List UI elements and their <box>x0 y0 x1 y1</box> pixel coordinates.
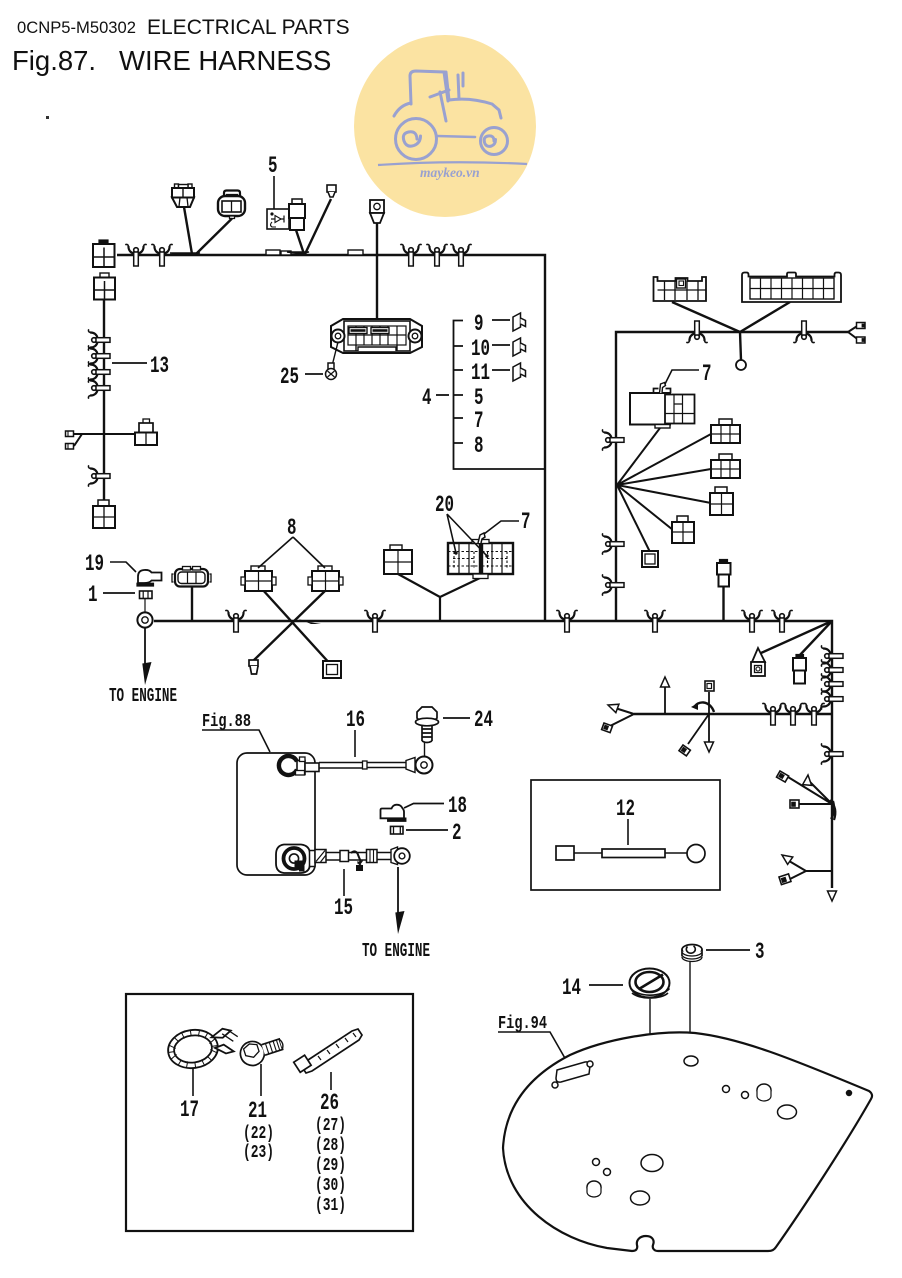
svg-text:0CNP5-M50302: 0CNP5-M50302 <box>17 18 136 37</box>
svg-text:21: 21 <box>248 1098 267 1124</box>
wire clip <box>88 329 110 350</box>
wire mid-right line <box>634 713 832 715</box>
wire clip <box>602 574 624 595</box>
connector fan <box>711 454 740 478</box>
label 5 <box>268 153 278 212</box>
label 16 <box>346 707 365 757</box>
svg-text:19: 19 <box>85 551 104 577</box>
bulb terminal <box>327 185 336 197</box>
wire clip <box>602 429 624 450</box>
terminal (above junction) <box>705 681 714 691</box>
label 7 <box>665 361 712 387</box>
svg-text:TO ENGINE: TO ENGINE <box>362 940 430 962</box>
svg-text:Fig.94: Fig.94 <box>498 1014 547 1034</box>
wire clip <box>762 703 783 725</box>
hose clamp 17 <box>166 1024 242 1072</box>
connector (mid left) <box>135 419 157 445</box>
wire bolt to ring <box>424 742 426 757</box>
wire fan-out <box>617 428 711 552</box>
terminal <box>602 723 613 733</box>
connector (X bottom right) <box>323 661 341 678</box>
svg-text:maykeo.vn: maykeo.vn <box>420 165 480 180</box>
bolt 24 <box>416 707 439 743</box>
svg-text:(31): (31) <box>315 1196 346 1216</box>
connector (top right 2) <box>742 273 841 303</box>
wire clip <box>793 321 814 343</box>
terminal <box>777 771 789 782</box>
wire to bulb <box>305 199 331 254</box>
label 12 <box>616 796 635 845</box>
label 24 <box>443 707 493 733</box>
svg-text:9: 9 <box>474 311 484 337</box>
connector (oval top) <box>218 191 245 219</box>
wire clip <box>821 688 843 709</box>
terminal (diag end) <box>679 745 690 756</box>
Fig.88 label <box>202 712 270 752</box>
wire clip <box>644 610 665 632</box>
svg-text:24: 24 <box>474 707 493 733</box>
svg-text:3: 3 <box>755 939 765 965</box>
wire clip <box>771 610 792 632</box>
wire clip <box>88 465 110 486</box>
wire <box>196 219 232 255</box>
label 15 <box>334 869 353 921</box>
wire <box>184 207 192 254</box>
wire clip <box>88 377 110 398</box>
relay 7 <box>630 383 695 429</box>
arrow up branch <box>664 682 666 714</box>
TO ENGINE arrow 2 <box>397 867 399 913</box>
pentagon connector (right) <box>751 648 765 676</box>
svg-text:4: 4 <box>422 385 432 411</box>
svg-text:12: 12 <box>616 796 635 822</box>
terminal <box>66 444 74 450</box>
wire fork 871 <box>784 858 832 881</box>
connector (X top) <box>308 566 343 591</box>
bracket list 4 <box>436 320 545 469</box>
tape markers on bus <box>170 250 363 255</box>
svg-text:25: 25 <box>280 364 299 390</box>
wire junction 709 <box>688 692 709 744</box>
wire clip <box>450 244 471 266</box>
svg-text:(27): (27) <box>315 1116 346 1136</box>
connector (X top) <box>241 566 276 591</box>
ring terminal <box>137 612 152 627</box>
terminal <box>779 874 791 885</box>
wire clip <box>821 743 843 764</box>
wire clip <box>602 533 624 554</box>
wire clip <box>88 345 110 366</box>
wire <box>191 587 193 620</box>
wire clip <box>125 244 146 266</box>
wire 3 to panel <box>689 962 691 1056</box>
svg-text:(30): (30) <box>315 1176 346 1196</box>
wire clip <box>741 610 762 632</box>
arrow bottom <box>828 891 837 901</box>
svg-text:16: 16 <box>346 707 365 733</box>
terminal (X bottom left) <box>249 660 258 674</box>
svg-text:(29): (29) <box>315 1156 346 1176</box>
svg-text:TO ENGINE: TO ENGINE <box>109 685 177 707</box>
bolt 21 <box>237 1032 286 1068</box>
watermark logo <box>354 35 536 217</box>
box item 12 <box>531 780 720 890</box>
terminal <box>857 323 866 329</box>
wire middle bus <box>154 621 832 888</box>
cable 15 <box>276 845 410 874</box>
grommet 3 <box>682 945 702 962</box>
arrow down <box>705 742 714 752</box>
wire clip <box>821 645 843 666</box>
clamp 2 <box>391 826 404 834</box>
relay small (x723) <box>717 560 731 587</box>
wire clip <box>782 703 803 725</box>
svg-text:Fig.87. WIRE HARNESS: Fig.87. WIRE HARNESS <box>12 45 331 76</box>
connector fan E <box>642 551 658 567</box>
label 20 <box>435 492 487 556</box>
wire clip <box>686 321 707 343</box>
Fig.88 box <box>237 753 315 875</box>
fuse 10 <box>513 338 526 356</box>
label 26 <box>315 1072 346 1216</box>
cable tie 26 <box>294 1029 362 1073</box>
wire clip <box>151 244 172 266</box>
wire to fuse box <box>376 223 378 321</box>
wire clip <box>556 610 577 632</box>
svg-text:15: 15 <box>334 895 353 921</box>
terminal <box>857 337 866 343</box>
fuse box <box>331 319 422 353</box>
wire clip <box>225 610 246 632</box>
relay item 5 <box>289 199 305 230</box>
label 3 <box>706 939 765 965</box>
connector (trapezoid top) <box>172 184 194 207</box>
connector fan D <box>672 516 694 543</box>
item 1 clamp <box>140 591 153 613</box>
svg-text:Fig.88: Fig.88 <box>202 712 251 732</box>
label 8 <box>258 515 325 568</box>
svg-text:18: 18 <box>448 793 467 819</box>
wire clip <box>821 659 843 680</box>
screw item 25 <box>326 342 339 380</box>
svg-text:26: 26 <box>320 1090 339 1116</box>
svg-text:7: 7 <box>474 408 484 434</box>
floor panel Fig.94 <box>503 1032 872 1251</box>
svg-text:2: 2 <box>452 820 462 846</box>
svg-text:17: 17 <box>180 1097 199 1123</box>
connector (left of 20 pair) <box>384 545 412 574</box>
label 13 <box>112 353 169 379</box>
grommet 14 <box>630 969 670 999</box>
wire <box>722 587 724 621</box>
wire top bus <box>117 255 545 621</box>
label 7 (pair) <box>454 509 530 558</box>
bottom parts box <box>126 994 413 1231</box>
svg-text:ELECTRICAL PARTS: ELECTRICAL PARTS <box>147 16 350 39</box>
terminal <box>66 431 74 437</box>
fuse 11 <box>513 363 526 381</box>
svg-text:10: 10 <box>471 336 490 362</box>
diode box item 5 <box>267 209 289 229</box>
wire clip <box>803 703 824 725</box>
label 2 <box>406 820 462 846</box>
svg-text:5: 5 <box>268 153 278 179</box>
wire right bus <box>616 332 848 621</box>
svg-text:1: 1 <box>88 582 98 608</box>
Fig.94 label <box>498 1014 566 1060</box>
label 14 <box>562 975 623 1001</box>
cable 16 <box>279 756 433 775</box>
connector (left end of top bus) <box>93 240 115 267</box>
wire corner fan <box>761 621 832 656</box>
wire <box>296 230 304 254</box>
boot 18 <box>381 805 406 821</box>
wire clip <box>400 244 421 266</box>
svg-text:(23): (23) <box>243 1143 274 1163</box>
TO ENGINE arrow 1 <box>144 628 146 664</box>
pentagon connector <box>370 200 384 223</box>
label 1 <box>88 582 135 608</box>
svg-text:13: 13 <box>150 353 169 379</box>
header text <box>12 16 350 119</box>
fuse 9 <box>513 313 526 331</box>
svg-text:(22): (22) <box>243 1124 274 1144</box>
wire fork right <box>848 326 858 340</box>
label 17 <box>180 1068 199 1123</box>
connector (bottom of left line) <box>93 500 115 528</box>
label 18 <box>404 793 467 819</box>
svg-text:(28): (28) <box>315 1136 346 1156</box>
connector (top right 1) <box>654 277 707 301</box>
wire clip <box>88 361 110 382</box>
arrow up-left <box>779 851 792 864</box>
wire to connectors <box>672 302 790 360</box>
wire 14 to panel <box>649 999 651 1154</box>
svg-text:7: 7 <box>521 509 531 535</box>
connector (below left) <box>94 273 115 300</box>
svg-text:20: 20 <box>435 492 454 518</box>
wire Y <box>398 574 480 620</box>
svg-text:7: 7 <box>702 361 712 387</box>
connector pair items 20 and 7 <box>448 533 513 579</box>
label 21 <box>243 1064 274 1163</box>
arrow left <box>606 701 618 713</box>
wire X cross <box>253 589 332 666</box>
wire clip <box>821 673 843 694</box>
connector fan <box>711 419 740 443</box>
arrow up <box>803 775 813 786</box>
label 25 <box>280 364 323 390</box>
relay (right col) <box>793 655 806 684</box>
panel holes <box>552 1056 852 1205</box>
svg-text:14: 14 <box>562 975 581 1001</box>
svg-text:11: 11 <box>471 360 490 386</box>
connector fan C <box>710 487 733 515</box>
svg-text:8: 8 <box>474 433 484 459</box>
connector (oval mid) <box>172 567 211 587</box>
wire left vertical <box>103 299 105 528</box>
wire junction left <box>73 433 136 435</box>
ring drop <box>736 360 746 370</box>
wire fan 804 <box>788 777 832 804</box>
wire clip <box>364 610 385 632</box>
wire clip <box>426 244 447 266</box>
terminal <box>790 800 799 808</box>
item 19 boot <box>137 570 162 586</box>
label 19 <box>85 551 136 577</box>
